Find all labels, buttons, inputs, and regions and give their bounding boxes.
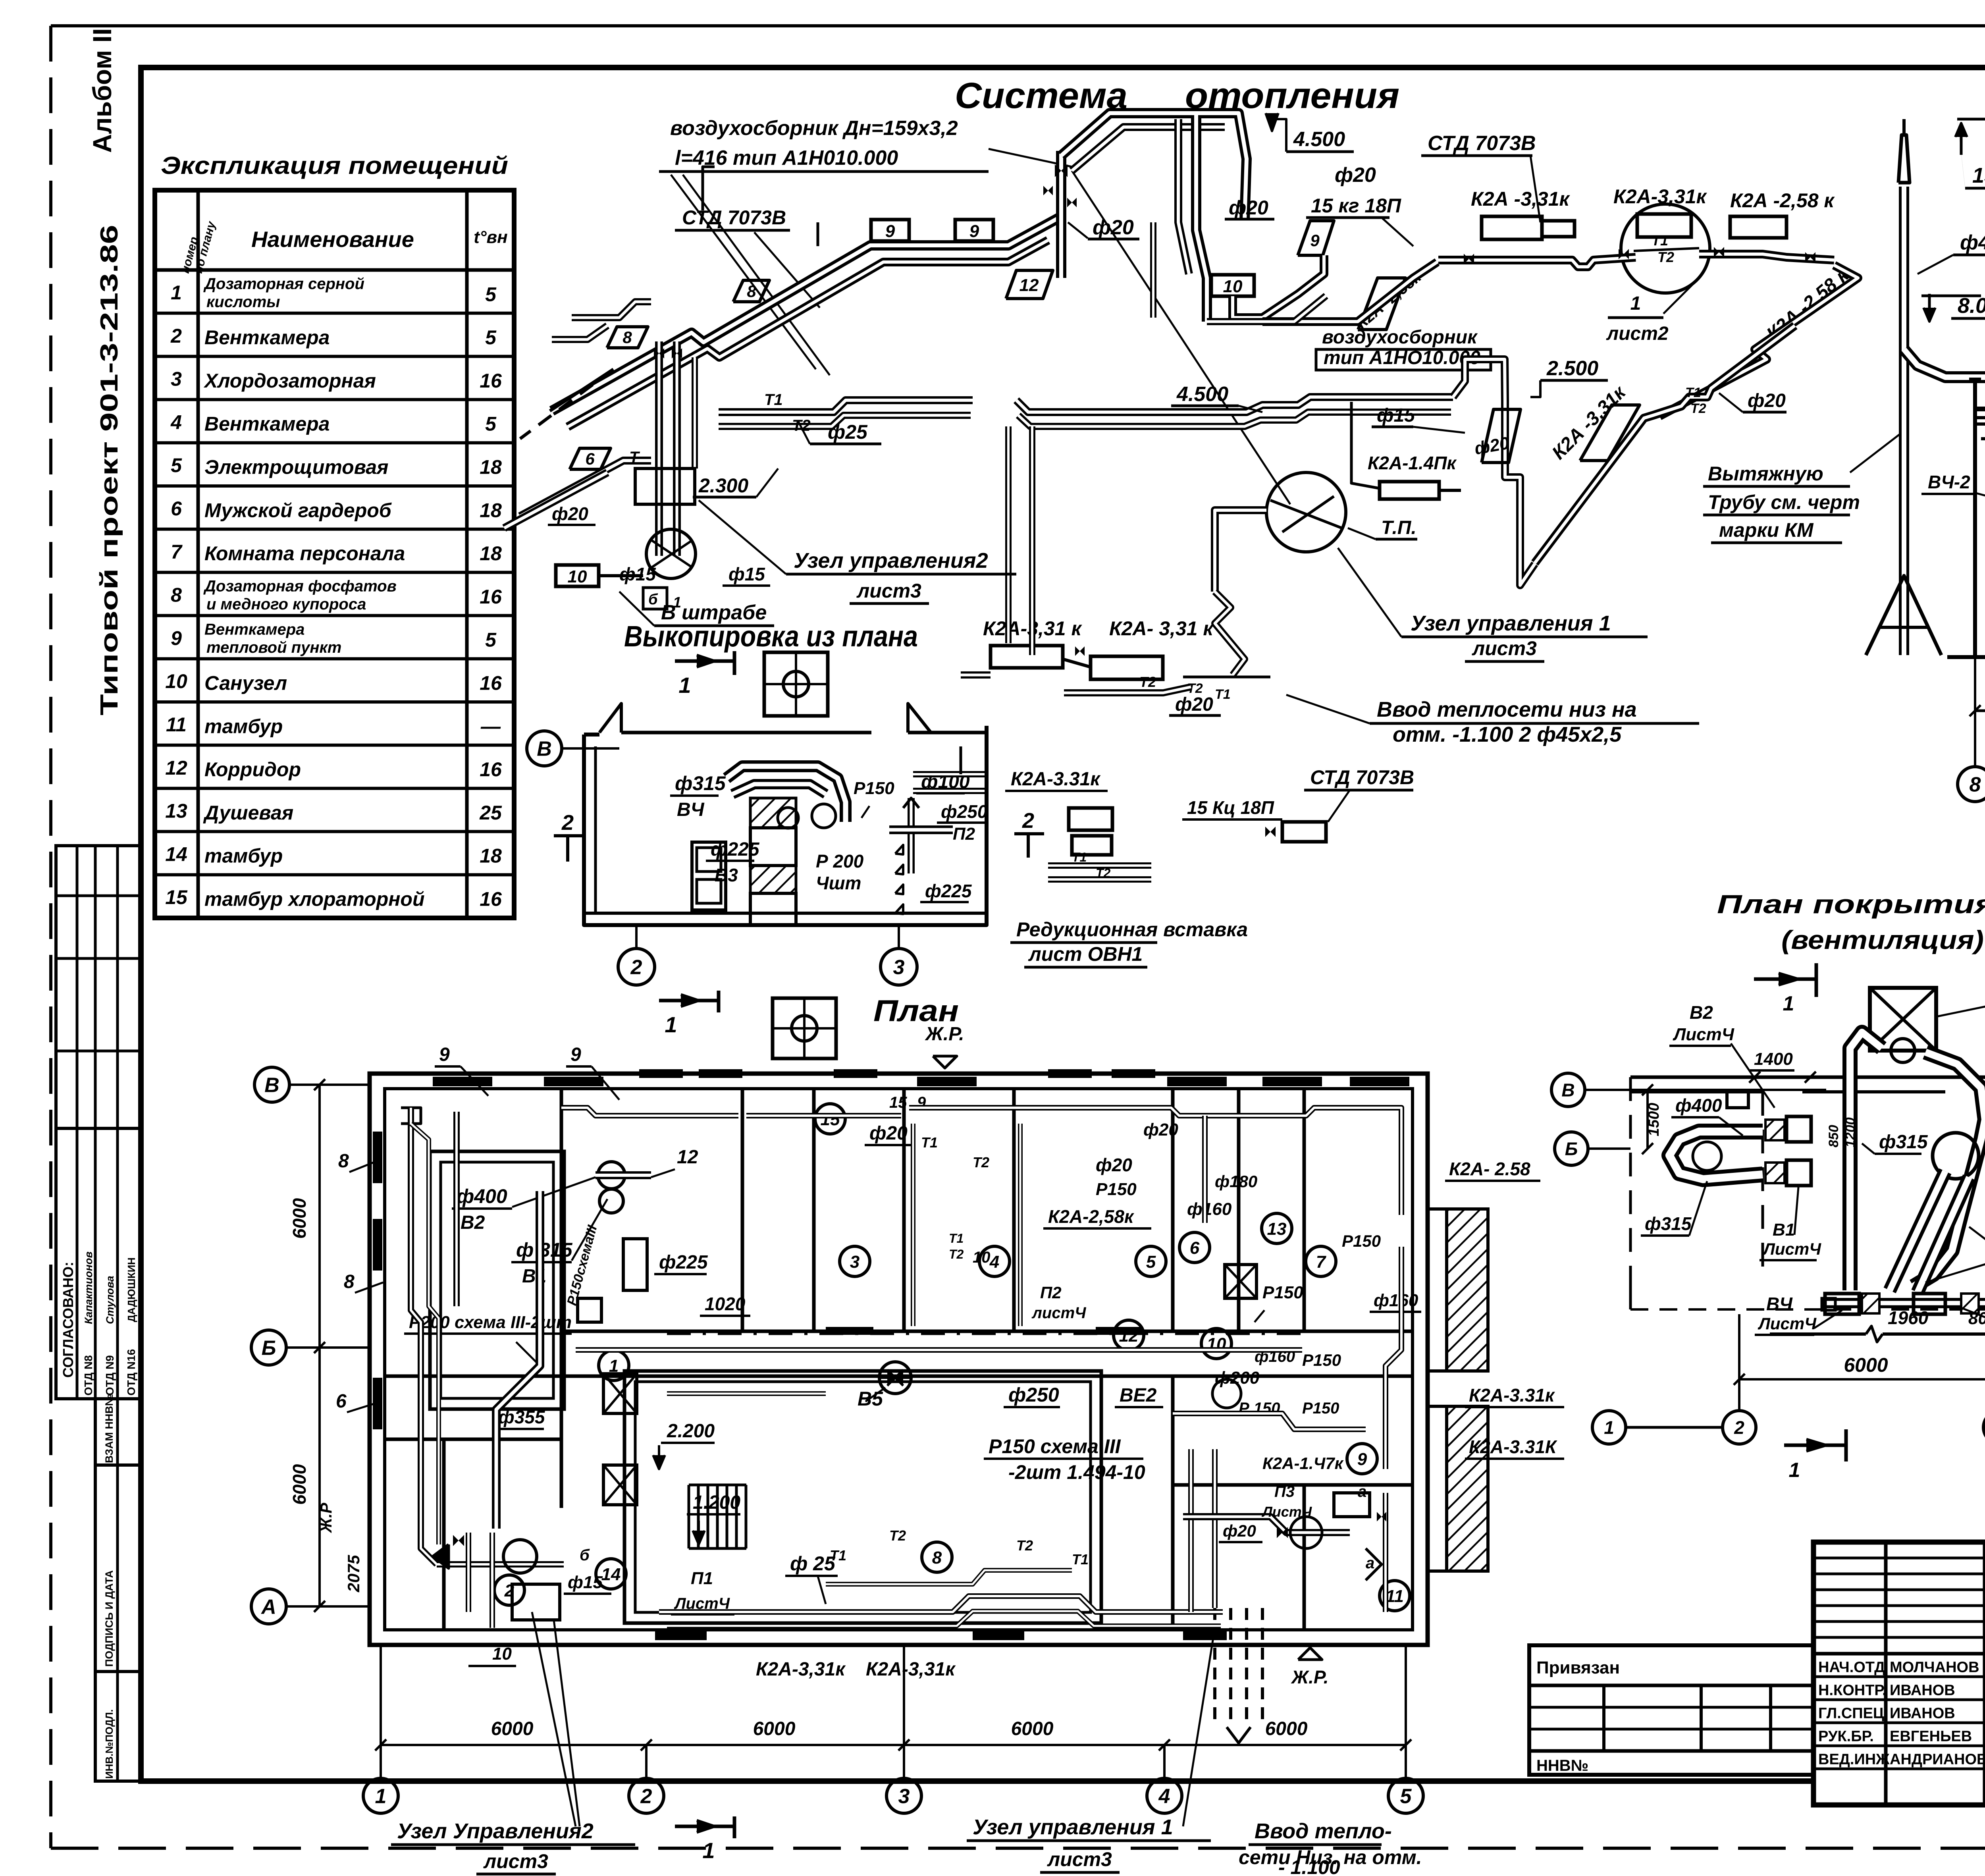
- svg-text:t°вн: t°вн: [474, 228, 507, 247]
- svg-text:12: 12: [677, 1147, 698, 1168]
- svg-text:ННВ№: ННВ№: [1536, 1757, 1588, 1774]
- svg-text:Капактионов: Капактионов: [83, 1251, 94, 1324]
- svg-text:11: 11: [1386, 1587, 1404, 1606]
- svg-text:ф20: ф20: [1229, 197, 1268, 219]
- svg-text:В штрабе: В штрабе: [661, 601, 767, 624]
- svg-text:5: 5: [485, 326, 497, 349]
- svg-text:12: 12: [165, 757, 187, 779]
- svg-text:ф 25: ф 25: [790, 1552, 836, 1575]
- svg-text:Р150: Р150: [1302, 1351, 1341, 1369]
- box 10 left: [556, 565, 599, 586]
- svg-text:К2А- 3,31 к: К2А- 3,31 к: [1109, 617, 1214, 640]
- svg-text:2: 2: [1734, 1417, 1744, 1438]
- grid circle B vykopirovka: [527, 731, 562, 766]
- svg-text:4.500: 4.500: [1293, 128, 1345, 151]
- parallelogram big right: [1580, 405, 1640, 461]
- svg-text:10: 10: [492, 1644, 512, 1664]
- room row 7 Комната персонала: [155, 528, 514, 531]
- svg-text:СОГЛАСОВАНО:: СОГЛАСОВАНО:: [60, 1262, 76, 1378]
- pipe mid vertical pair: [1196, 115, 1207, 322]
- plan bottom dim line: [381, 1744, 1406, 1746]
- svg-text:1: 1: [375, 1785, 387, 1808]
- curved ducts vykopirovka: [727, 766, 846, 822]
- plan stair blocks right: [1447, 1209, 1488, 1371]
- svg-text:МОЛЧАНОВ: МОЛЧАНОВ: [1890, 1659, 1979, 1675]
- svg-text:8: 8: [932, 1548, 942, 1568]
- svg-text:Т1: Т1: [1072, 1551, 1089, 1568]
- grid circles 2 3 vykopirovka: [618, 949, 655, 985]
- svg-text:В: В: [1561, 1080, 1575, 1101]
- svg-text:14: 14: [165, 843, 187, 865]
- svg-text:8: 8: [171, 584, 182, 606]
- svg-text:ЛистЧ: ЛистЧ: [1673, 1025, 1734, 1044]
- svg-text:—: —: [480, 715, 501, 737]
- svg-text:ф20: ф20: [1335, 164, 1376, 187]
- dashed diag pipe left: [520, 369, 613, 439]
- svg-text:13: 13: [165, 800, 187, 822]
- radiator boxes top right group: [1482, 216, 1542, 239]
- svg-text:СТД 7073В: СТД 7073В: [682, 206, 786, 229]
- plan room risers: [911, 1124, 915, 1326]
- svg-text:В: В: [264, 1074, 279, 1097]
- svg-text:Редукционная вставка: Редукционная вставка: [1016, 918, 1248, 941]
- svg-text:16: 16: [480, 888, 502, 910]
- long T2 parallel run: [719, 415, 971, 426]
- svg-text:Наименование: Наименование: [251, 227, 414, 252]
- svg-text:Р150: Р150: [854, 779, 894, 798]
- duct elbow from chimney: [1904, 349, 1985, 377]
- label 8 parallelogram top: [733, 280, 769, 302]
- svg-text:7: 7: [171, 541, 183, 563]
- svg-text:13: 13: [1267, 1219, 1287, 1239]
- uzel upravleniya 2 cluster: [655, 341, 663, 556]
- roof plan U duct connectors: [1765, 1120, 1785, 1140]
- svg-text:Душевая: Душевая: [203, 802, 293, 824]
- svg-text:ф225: ф225: [925, 881, 972, 901]
- svg-text:ф160: ф160: [1187, 1199, 1232, 1219]
- svg-text:К2А-3.31К: К2А-3.31К: [1469, 1436, 1557, 1457]
- svg-text:лист ОВН1: лист ОВН1: [1028, 943, 1143, 965]
- svg-text:Т.П.: Т.П.: [1381, 517, 1416, 538]
- svg-text:3: 3: [171, 368, 182, 390]
- svg-text:Т1: Т1: [830, 1547, 846, 1564]
- svg-text:ф225: ф225: [659, 1252, 708, 1273]
- plan radiator bars left wall: [373, 1132, 382, 1183]
- svg-text:(вентиляция): (вентиляция): [1781, 925, 1984, 954]
- svg-text:К2А- 2.58: К2А- 2.58: [1449, 1159, 1530, 1179]
- roof plan duct from fan left: [1850, 1032, 1882, 1290]
- roof plan top wall: [1630, 1076, 1985, 1079]
- svg-text:9: 9: [171, 627, 182, 649]
- svg-text:Ж.Р.: Ж.Р.: [1291, 1667, 1328, 1687]
- svg-text:ГЛ.СПЕЦ: ГЛ.СПЕЦ: [1818, 1705, 1884, 1722]
- svg-text:Т1: Т1: [1215, 687, 1231, 702]
- plan X boxes vent shafts: [603, 1374, 637, 1413]
- svg-text:Б: Б: [1565, 1139, 1578, 1159]
- parallelogram 9 mid: [1298, 221, 1334, 255]
- svg-text:15 кг 18П: 15 кг 18П: [1311, 195, 1401, 217]
- pipe top zigzag to 4.500: [1061, 113, 1247, 220]
- svg-text:К2А -2,58 к: К2А -2,58 к: [1730, 189, 1835, 212]
- svg-text:6: 6: [585, 449, 595, 468]
- svg-text:Н.КОНТР.: Н.КОНТР.: [1818, 1682, 1887, 1699]
- room row 6 Мужской гардероб: [155, 484, 514, 488]
- svg-text:В2: В2: [461, 1212, 485, 1233]
- svg-text:8.000: 8.000: [1958, 294, 1985, 318]
- svg-text:Привязан: Привязан: [1536, 1658, 1620, 1677]
- svg-text:Венткамера: Венткамера: [204, 621, 304, 638]
- room row 15 тамбур хлораторной: [155, 873, 514, 876]
- plan window ticks top: [639, 1069, 683, 1078]
- svg-text:Венткамера: Венткамера: [204, 326, 330, 349]
- duct P2 vykopirovka: [889, 825, 953, 834]
- parallelogram radiator diag mid: [1358, 278, 1405, 330]
- roof plan side boundaries: [1629, 1077, 1632, 1282]
- plan stairs room 8: [688, 1485, 690, 1548]
- pipe bottom center connections: [961, 671, 991, 679]
- plan grid circles left: [254, 1067, 289, 1102]
- roof plan bottom connector row: [1826, 1298, 1985, 1308]
- svg-text:Вытяжную: Вытяжную: [1708, 463, 1823, 485]
- svg-text:8: 8: [622, 328, 632, 347]
- plan grid circles bottom: [363, 1778, 398, 1813]
- svg-text:14: 14: [601, 1565, 621, 1584]
- svg-text:Т2: Т2: [889, 1527, 906, 1544]
- section 1-1 chimney mast: [1899, 187, 1909, 655]
- room row 8 Дозаторная фосфатов: [155, 571, 514, 574]
- svg-text:5: 5: [485, 283, 497, 305]
- svg-text:6000: 6000: [289, 1198, 310, 1239]
- svg-text:АНДРИАНОВА: АНДРИАНОВА: [1890, 1751, 1985, 1768]
- svg-text:1400: 1400: [1754, 1049, 1793, 1069]
- svg-text:16: 16: [480, 758, 502, 781]
- svg-text:Электрощитовая: Электрощитовая: [204, 456, 389, 478]
- diagonal pipe K2A-3.31k group to upper right: [1535, 326, 1795, 563]
- svg-text:1200: 1200: [1843, 1117, 1858, 1147]
- svg-text:ф15: ф15: [568, 1573, 603, 1592]
- label B1 small: [643, 588, 667, 609]
- title block signature rows: [1813, 1675, 1985, 1678]
- label 6 parallelogram left: [570, 448, 611, 469]
- roof plan section flag top: [1754, 978, 1816, 981]
- svg-text:Т1: Т1: [1685, 385, 1701, 400]
- svg-text:П3: П3: [1274, 1483, 1295, 1500]
- svg-text:15.000: 15.000: [1972, 164, 1985, 187]
- room row 13 Душевая: [155, 787, 514, 790]
- svg-text:5: 5: [1146, 1252, 1156, 1272]
- podpis i data stamp box: [95, 1465, 141, 1672]
- svg-text:Т2: Т2: [1657, 249, 1674, 265]
- svg-text:2: 2: [1022, 809, 1034, 833]
- svg-text:ф315: ф315: [675, 772, 726, 794]
- svg-text:К2А-3.31к: К2А-3.31к: [1011, 769, 1101, 790]
- svg-text:Комната персонала: Комната персонала: [204, 542, 405, 565]
- svg-text:9: 9: [570, 1044, 581, 1065]
- svg-text:П2: П2: [1040, 1283, 1062, 1302]
- vykopirovka right-part pipes: [913, 771, 985, 777]
- svg-text:9: 9: [885, 222, 895, 241]
- svg-text:ЛистЧ: ЛистЧ: [1762, 1240, 1821, 1258]
- svg-text:4: 4: [1158, 1785, 1170, 1808]
- svg-text:К2А-3,31к: К2А-3,31к: [756, 1659, 846, 1680]
- pipe upper-left parallel return run: [568, 240, 1048, 427]
- svg-text:3: 3: [893, 956, 905, 979]
- svg-text:тамбур хлораторной: тамбур хлораторной: [204, 888, 425, 910]
- svg-text:РУК.БР.: РУК.БР.: [1818, 1728, 1874, 1745]
- svg-text:и медного купороса: и медного купороса: [206, 596, 366, 613]
- svg-text:Т2: Т2: [949, 1247, 964, 1261]
- title block white mask: [1813, 1542, 1985, 1805]
- svg-text:6000: 6000: [289, 1464, 310, 1505]
- room row 9 Венткамера: [155, 614, 514, 617]
- roof edge posts: [1973, 381, 1977, 409]
- svg-text:Трубу см. черт: Трубу см. черт: [1708, 491, 1860, 513]
- svg-text:Узел управления2: Узел управления2: [794, 549, 988, 573]
- leader lines from vozduhosbornik label: [671, 175, 816, 369]
- svg-text:Т2: Т2: [973, 1154, 989, 1170]
- svg-text:Т1: Т1: [1652, 232, 1668, 249]
- svg-text:ИВАНОВ: ИВАНОВ: [1890, 1705, 1955, 1722]
- svg-text:ф25: ф25: [828, 421, 868, 443]
- pipe top zigzag parallel: [1072, 127, 1225, 171]
- svg-text:ОТД N8: ОТД N8: [82, 1355, 94, 1396]
- svg-text:1: 1: [665, 1012, 677, 1037]
- riser f100 vykopirovka: [908, 798, 915, 873]
- svg-text:10: 10: [973, 1249, 991, 1266]
- svg-text:1020: 1020: [705, 1294, 746, 1314]
- svg-text:ВЧ-2: ВЧ-2: [1928, 472, 1970, 492]
- long T1 T2 horizontal run: [719, 400, 973, 412]
- svg-text:2: 2: [561, 811, 574, 835]
- roof plan U duct left: [1669, 1132, 1763, 1179]
- svg-text:Чшт: Чшт: [816, 873, 861, 893]
- svg-text:листЧ: листЧ: [1031, 1304, 1086, 1322]
- svg-text:б: б: [580, 1546, 590, 1564]
- svg-text:ВЕД.ИНЖ: ВЕД.ИНЖ: [1818, 1751, 1890, 1768]
- roof plan center circle junction: [1933, 1133, 1979, 1179]
- svg-text:В1: В1: [1773, 1220, 1795, 1240]
- svg-text:ф160: ф160: [1374, 1291, 1418, 1310]
- roof band section 1-1: [1975, 407, 1985, 411]
- plan section flag 1 bottom: [675, 1825, 734, 1828]
- svg-text:- 1.100: - 1.100: [1278, 1856, 1340, 1876]
- room schedule table frame: [155, 190, 514, 918]
- triangles vent marks: [895, 845, 903, 854]
- radiator K2A-1.4Pk box: [1380, 482, 1439, 499]
- pipe vvod teploseti diagonal: [1215, 592, 1245, 675]
- parallelogram f20 right: [1482, 409, 1521, 463]
- svg-text:К2А-1.Ч7к: К2А-1.Ч7к: [1262, 1454, 1344, 1473]
- room row 10 Санузел: [155, 657, 514, 660]
- svg-text:Корридор: Корридор: [204, 758, 301, 781]
- plan big left room: [430, 1151, 564, 1409]
- svg-text:2.200: 2.200: [667, 1421, 715, 1442]
- svg-text:850: 850: [1826, 1125, 1841, 1147]
- plan right room walls: [1171, 1376, 1175, 1630]
- svg-text:СТД 7073В: СТД 7073В: [1428, 132, 1536, 155]
- plan room number circles: [815, 1104, 845, 1134]
- svg-text:ф15: ф15: [1377, 405, 1415, 426]
- pipe diag mid to right: [1262, 262, 1437, 322]
- svg-text:Узел управления 1: Узел управления 1: [973, 1815, 1173, 1839]
- svg-text:18: 18: [480, 499, 502, 521]
- room row 4 Венткамера: [155, 398, 514, 401]
- plan section flag 1 top: [659, 999, 719, 1003]
- plan pipes perimeter heating: [401, 1108, 421, 1124]
- riser vertical pipe with valves: [1056, 151, 1066, 278]
- svg-text:Типовой проект 901-3-213.8: Типовой проект 901-3-213.86: [96, 225, 123, 715]
- svg-text:12: 12: [1019, 276, 1039, 295]
- svg-text:9: 9: [439, 1044, 450, 1065]
- uzel upravleniya 1 circle: [1266, 472, 1346, 552]
- svg-text:18: 18: [480, 542, 502, 565]
- radiator 9 box b: [955, 220, 993, 241]
- svg-text:Б: Б: [262, 1337, 276, 1360]
- outer sheet border: [51, 24, 1985, 27]
- svg-text:Р 200: Р 200: [816, 851, 864, 871]
- vzam hnv stamp box: [95, 1399, 141, 1465]
- label 8 parallelogram left: [607, 327, 648, 348]
- room row 2 Венткамера: [155, 312, 514, 315]
- svg-text:15: 15: [821, 1110, 840, 1129]
- svg-text:1: 1: [1789, 1459, 1800, 1482]
- svg-text:10: 10: [568, 567, 587, 586]
- svg-text:6000: 6000: [1011, 1718, 1054, 1739]
- svg-text:К2А -3,31к: К2А -3,31к: [1471, 188, 1571, 210]
- svg-text:5: 5: [171, 454, 182, 476]
- svg-text:План: План: [873, 994, 959, 1028]
- soglasovano stamp block: [56, 1128, 140, 1399]
- pipe from 10 box down: [1233, 255, 1324, 318]
- svg-text:Р150: Р150: [1302, 1400, 1339, 1417]
- svg-text:воздухосборник: воздухосборник: [1322, 327, 1478, 348]
- svg-text:Т1: Т1: [764, 391, 783, 409]
- svg-text:9: 9: [969, 222, 979, 241]
- svg-text:16: 16: [480, 672, 502, 694]
- svg-text:6000: 6000: [491, 1718, 534, 1739]
- svg-text:Т2: Т2: [1016, 1537, 1033, 1554]
- svg-text:Т2: Т2: [1690, 401, 1706, 416]
- svg-text:ф355: ф355: [498, 1407, 545, 1427]
- svg-text:воздухосборник Дн=159х3,2: воздухосборник Дн=159х3,2: [670, 117, 958, 140]
- dim 12000: [1975, 710, 1985, 712]
- small flag top-left schematic: [703, 167, 715, 210]
- svg-text:6: 6: [1190, 1238, 1200, 1258]
- room row 3 Хлордозаторная: [155, 355, 514, 358]
- svg-text:-2шт 1.494-10: -2шт 1.494-10: [1008, 1461, 1145, 1483]
- roof vent square vykopirovka: [764, 652, 828, 716]
- plan radiator bars top wall: [433, 1077, 492, 1086]
- svg-text:Т: Т: [629, 449, 640, 466]
- pipe right riser group: [1453, 359, 1535, 585]
- svg-text:6000: 6000: [1265, 1718, 1308, 1739]
- svg-text:1: 1: [171, 281, 182, 304]
- svg-text:ЛистЧ: ЛистЧ: [1261, 1504, 1312, 1520]
- svg-text:10: 10: [1223, 277, 1243, 296]
- svg-text:СТД 7073В: СТД 7073В: [1310, 766, 1414, 789]
- svg-text:8: 8: [747, 282, 756, 301]
- plan corridor double run: [576, 1347, 1302, 1353]
- svg-text:2: 2: [640, 1785, 652, 1808]
- section flag 1 top: [675, 659, 734, 663]
- svg-text:ф15: ф15: [728, 564, 765, 584]
- svg-text:План покрытия: План покрытия: [1717, 889, 1985, 919]
- svg-text:К2А-3.31к: К2А-3.31к: [1469, 1385, 1555, 1406]
- plan X box room 13: [1225, 1265, 1257, 1298]
- privyazan block: [1529, 1645, 1813, 1775]
- inv no podl stamp box: [95, 1672, 141, 1781]
- svg-text:В3: В3: [715, 865, 738, 885]
- svg-text:1: 1: [678, 673, 691, 698]
- svg-text:Ввод тепло-: Ввод тепло-: [1255, 1819, 1392, 1843]
- vykopirovka walls: [584, 726, 987, 925]
- pipe upper-left diagonal run: [552, 218, 1059, 411]
- svg-text:2: 2: [170, 325, 182, 347]
- svg-text:К2А-1.4Пк: К2А-1.4Пк: [1368, 453, 1457, 473]
- svg-text:Т1: Т1: [949, 1231, 964, 1246]
- svg-text:ОТД N9: ОТД N9: [104, 1355, 116, 1396]
- svg-text:ВЧ: ВЧ: [1766, 1294, 1793, 1314]
- svg-text:ф250: ф250: [941, 801, 988, 822]
- plan ventilation units top left: [598, 1162, 625, 1189]
- svg-text:15 Кц 18П: 15 Кц 18П: [1187, 797, 1274, 818]
- svg-text:Т2: Т2: [1139, 674, 1156, 690]
- svg-text:лист2: лист2: [1606, 323, 1669, 344]
- svg-text:1960: 1960: [1888, 1307, 1929, 1328]
- svg-text:18: 18: [480, 456, 502, 478]
- plan hall room 8 walls: [624, 1371, 1101, 1623]
- svg-text:Р200 схема III-2шт: Р200 схема III-2шт: [409, 1313, 572, 1332]
- roof plan bottom boundary: [1770, 1332, 1866, 1336]
- svg-text:ф20: ф20: [869, 1123, 908, 1144]
- svg-text:К2А-2,58к: К2А-2,58к: [1048, 1206, 1135, 1227]
- svg-text:Система: Система: [955, 75, 1127, 116]
- svg-text:8: 8: [344, 1271, 355, 1292]
- svg-text:В: В: [537, 738, 552, 761]
- svg-text:1: 1: [1630, 293, 1641, 314]
- plan partitions: [560, 1089, 563, 1508]
- plan uzel2 cluster pipes: [437, 1561, 564, 1568]
- svg-text:лист3: лист3: [856, 580, 921, 602]
- svg-text:Узел Управления2: Узел Управления2: [397, 1819, 594, 1843]
- svg-text:6: 6: [171, 497, 182, 520]
- svg-text:тамбур: тамбур: [204, 845, 283, 867]
- svg-text:Т1: Т1: [921, 1134, 938, 1151]
- svg-text:отм. -1.100 2 ф45х2,5: отм. -1.100 2 ф45х2,5: [1393, 723, 1622, 746]
- svg-text:4: 4: [989, 1252, 999, 1272]
- svg-text:ВЗАМ ННВ№: ВЗАМ ННВ№: [103, 1394, 115, 1463]
- svg-text:ф315: ф315: [1645, 1213, 1692, 1234]
- roof plan bottom dim 6000: [1739, 1378, 1985, 1380]
- svg-text:Экспликация помещений: Экспликация помещений: [161, 152, 508, 179]
- svg-text:18: 18: [480, 845, 502, 867]
- svg-text:4.500: 4.500: [1176, 383, 1228, 406]
- svg-text:ф20: ф20: [1096, 1155, 1132, 1175]
- svg-text:9: 9: [1357, 1450, 1367, 1469]
- svg-text:ЛистЧ: ЛистЧ: [674, 1595, 730, 1612]
- svg-text:лист3: лист3: [1047, 1848, 1112, 1870]
- radiator 9 box a: [871, 220, 909, 241]
- svg-text:6000: 6000: [1844, 1354, 1888, 1376]
- svg-text:лист3: лист3: [1472, 637, 1537, 659]
- svg-text:15: 15: [889, 1094, 907, 1111]
- window symbol vykopirovka: [692, 842, 726, 910]
- plan uzel1 cluster pipes right: [1173, 1413, 1366, 1429]
- plan vvod dashed risers: [1213, 1608, 1216, 1719]
- svg-text:ПОДПИСЬ И ДАТА: ПОДПИСЬ И ДАТА: [103, 1570, 115, 1667]
- pipe from uzel1 left: [1215, 510, 1266, 592]
- svg-text:5: 5: [485, 629, 497, 651]
